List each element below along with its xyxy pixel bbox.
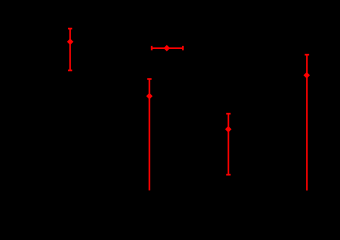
data point 5: vertical error bar, clipped at bottom	[305, 55, 309, 191]
marker 2 (diamond)	[164, 45, 170, 51]
marker 1 (diamond)	[67, 39, 73, 45]
data point 3: vertical error bar, clipped at bottom	[147, 79, 151, 190]
data point 2: horizontal error bar	[151, 46, 183, 50]
data point 4: vertical error bar	[226, 114, 230, 175]
marker 4 (diamond)	[226, 126, 232, 132]
marker 3 (diamond)	[147, 93, 153, 99]
marker 5 (diamond)	[304, 73, 310, 79]
data point 1: vertical error bar	[68, 29, 72, 71]
